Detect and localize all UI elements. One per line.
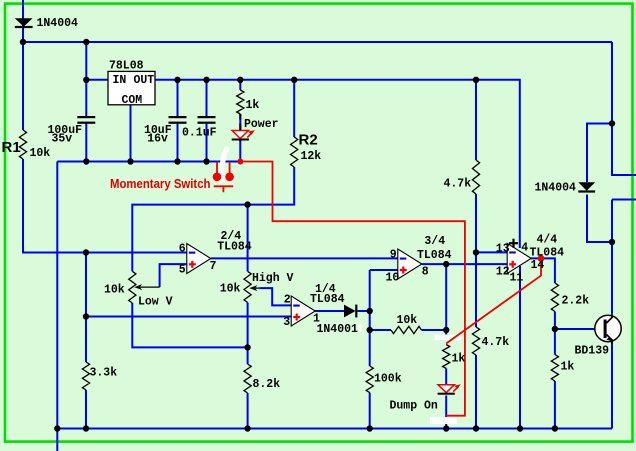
svg-text:78L08: 78L08: [109, 60, 144, 73]
svg-text:Power: Power: [244, 118, 279, 131]
svg-text:TL084: TL084: [310, 293, 345, 306]
svg-text:1N4004: 1N4004: [535, 182, 577, 195]
svg-text:COM: COM: [122, 94, 143, 107]
svg-text:4: 4: [521, 242, 528, 255]
svg-text:R1: R1: [2, 139, 21, 156]
svg-text:3.3k: 3.3k: [90, 367, 118, 380]
svg-text:13: 13: [496, 243, 510, 256]
svg-text:8: 8: [422, 266, 429, 279]
svg-text:16v: 16v: [147, 133, 168, 146]
svg-text:35v: 35v: [52, 133, 73, 146]
svg-text:1N4001: 1N4001: [317, 323, 359, 336]
svg-text:TL084: TL084: [530, 247, 565, 260]
svg-text:BD139: BD139: [575, 345, 610, 358]
svg-text:Momentary Switch: Momentary Switch: [110, 176, 211, 191]
svg-text:3: 3: [283, 316, 290, 329]
svg-text:5: 5: [179, 263, 186, 276]
svg-text:4/4: 4/4: [537, 234, 558, 247]
svg-text:2.2k: 2.2k: [562, 295, 590, 308]
svg-text:High V: High V: [252, 272, 294, 285]
svg-text:Low V: Low V: [138, 296, 173, 309]
svg-text:3/4: 3/4: [424, 235, 445, 248]
svg-text:9: 9: [390, 249, 397, 262]
svg-text:10k: 10k: [30, 147, 51, 160]
svg-text:100k: 100k: [374, 373, 402, 386]
svg-text:0.1uF: 0.1uF: [182, 126, 217, 139]
svg-text:10k: 10k: [397, 314, 418, 327]
svg-text:1k: 1k: [246, 99, 260, 112]
svg-text:11: 11: [510, 272, 524, 285]
svg-text:1k: 1k: [452, 353, 466, 366]
svg-text:1N4004: 1N4004: [37, 17, 79, 30]
svg-text:IN: IN: [113, 74, 127, 87]
svg-text:10k: 10k: [220, 283, 241, 296]
svg-text:1k: 1k: [561, 361, 575, 374]
svg-text:4.7k: 4.7k: [482, 336, 510, 349]
svg-text:7: 7: [210, 260, 217, 273]
svg-text:8.2k: 8.2k: [253, 378, 281, 391]
svg-text:12k: 12k: [301, 150, 322, 163]
svg-text:4.7k: 4.7k: [444, 178, 472, 191]
svg-text:Dump On: Dump On: [390, 400, 438, 413]
svg-text:TL084: TL084: [217, 240, 252, 253]
svg-text:10: 10: [386, 272, 400, 285]
svg-text:6: 6: [179, 243, 186, 256]
svg-text:2: 2: [284, 294, 291, 307]
svg-text:OUT: OUT: [134, 74, 155, 87]
svg-text:14: 14: [531, 259, 545, 272]
svg-text:TL084: TL084: [417, 249, 452, 262]
svg-text:R2: R2: [299, 132, 318, 149]
svg-text:10k: 10k: [104, 284, 125, 297]
svg-text:12: 12: [496, 266, 510, 279]
